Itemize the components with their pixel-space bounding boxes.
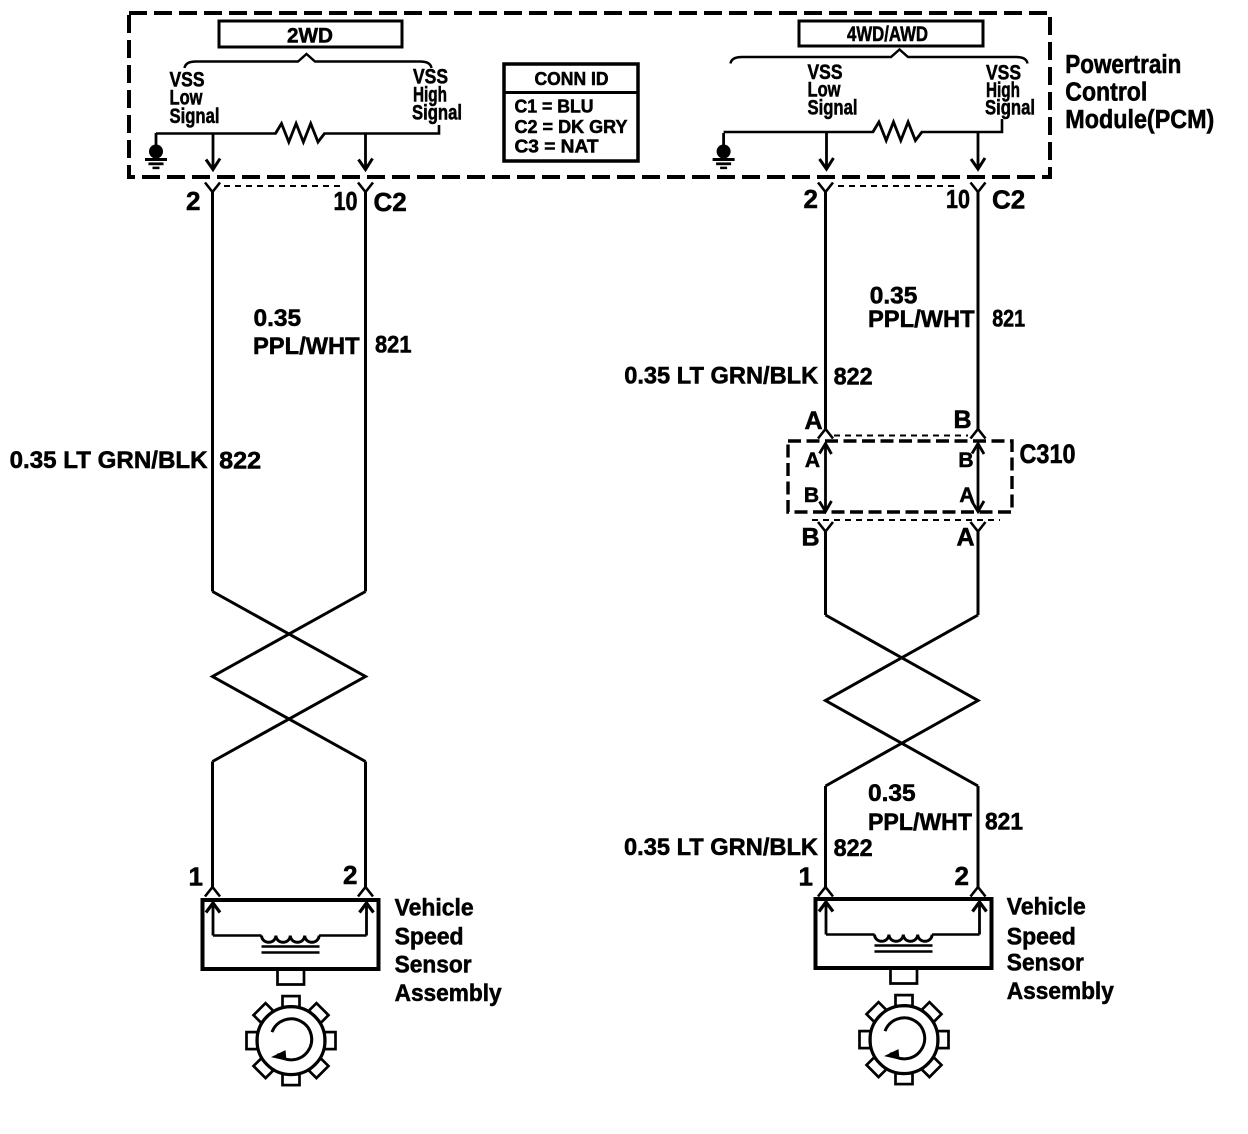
- svg-text:PPL/WHT: PPL/WHT: [868, 809, 972, 836]
- svg-text:821: 821: [992, 306, 1025, 333]
- svg-text:Vehicle: Vehicle: [1007, 894, 1086, 921]
- svg-text:C310: C310: [1020, 439, 1076, 469]
- svg-text:1: 1: [799, 862, 813, 892]
- svg-text:Signal: Signal: [170, 105, 220, 128]
- svg-text:0.35: 0.35: [868, 780, 916, 807]
- svg-text:2: 2: [955, 861, 969, 891]
- svg-text:821: 821: [375, 332, 412, 359]
- svg-text:821: 821: [985, 809, 1023, 836]
- svg-text:2: 2: [186, 186, 200, 216]
- svg-text:Sensor: Sensor: [395, 952, 472, 979]
- svg-text:Vehicle: Vehicle: [395, 895, 474, 922]
- svg-text:Speed: Speed: [395, 924, 464, 951]
- svg-text:C3 = NAT: C3 = NAT: [515, 136, 600, 157]
- svg-text:2: 2: [804, 184, 818, 214]
- svg-text:A: A: [956, 524, 974, 552]
- svg-text:PPL/WHT: PPL/WHT: [868, 306, 975, 333]
- svg-text:1: 1: [189, 862, 203, 892]
- svg-text:2WD: 2WD: [287, 24, 333, 48]
- svg-text:Assembly: Assembly: [1007, 978, 1115, 1005]
- svg-text:B: B: [953, 406, 971, 434]
- svg-text:Module(PCM): Module(PCM): [1065, 106, 1214, 134]
- svg-text:822: 822: [219, 448, 261, 475]
- svg-text:C1 = BLU: C1 = BLU: [515, 96, 594, 117]
- svg-text:822: 822: [834, 835, 873, 862]
- svg-text:B: B: [801, 524, 819, 552]
- svg-text:10: 10: [334, 186, 358, 216]
- svg-text:Powertrain: Powertrain: [1065, 51, 1181, 79]
- svg-text:Control: Control: [1065, 78, 1147, 106]
- svg-text:A: A: [959, 484, 974, 507]
- svg-text:C2 = DK GRY: C2 = DK GRY: [515, 116, 629, 137]
- svg-text:C2: C2: [374, 187, 407, 217]
- svg-text:C2: C2: [992, 185, 1025, 215]
- svg-text:10: 10: [946, 184, 970, 214]
- svg-text:A: A: [804, 407, 822, 435]
- svg-text:Speed: Speed: [1007, 924, 1076, 951]
- svg-text:B: B: [958, 449, 973, 472]
- svg-text:Signal: Signal: [808, 97, 858, 120]
- svg-text:4WD/AWD: 4WD/AWD: [847, 23, 928, 46]
- svg-text:A: A: [805, 449, 820, 472]
- svg-text:Sensor: Sensor: [1007, 950, 1084, 977]
- svg-text:2: 2: [343, 860, 357, 890]
- svg-text:Assembly: Assembly: [395, 980, 503, 1007]
- svg-text:B: B: [804, 484, 819, 507]
- svg-text:0.35 LT GRN/BLK: 0.35 LT GRN/BLK: [624, 834, 818, 861]
- svg-text:822: 822: [834, 364, 873, 391]
- svg-text:PPL/WHT: PPL/WHT: [253, 333, 360, 360]
- svg-text:0.35: 0.35: [254, 305, 302, 332]
- svg-text:CONN ID: CONN ID: [535, 68, 609, 89]
- svg-text:0.35 LT GRN/BLK: 0.35 LT GRN/BLK: [10, 447, 208, 474]
- svg-text:Signal: Signal: [412, 102, 462, 125]
- svg-text:0.35 LT GRN/BLK: 0.35 LT GRN/BLK: [624, 363, 818, 390]
- svg-text:Signal: Signal: [985, 97, 1035, 120]
